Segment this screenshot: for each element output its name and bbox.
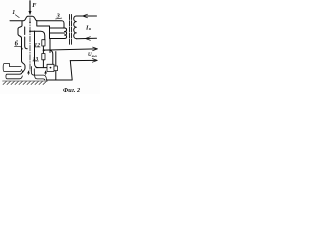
- arrowhead left bottom: [86, 37, 91, 41]
- output loop down: [47, 61, 73, 80]
- svg-text:12: 12: [34, 43, 40, 49]
- wire between windings: [42, 46, 44, 54]
- node dot below hump: [29, 22, 31, 24]
- svg-text:вых: вых: [92, 54, 98, 58]
- bottom load wire: [76, 37, 96, 39]
- wire element edge to box: [36, 67, 47, 69]
- background: [0, 0, 100, 94]
- secondary winding: [74, 16, 77, 39]
- wire from centreline to winding 12: [30, 31, 45, 40]
- arrowhead right 2: [92, 59, 97, 63]
- output wire 1: [44, 49, 96, 50]
- support bracket right: [31, 67, 46, 81]
- wire below winding 13: [42, 60, 44, 68]
- junction node: [43, 49, 45, 51]
- right step of flange: [37, 21, 50, 28]
- leader for label 1: [15, 15, 19, 18]
- elastic element left edge: [18, 21, 25, 72]
- beam top outline with hump: [10, 16, 64, 28]
- inner left slot line: [25, 27, 28, 49]
- node dot on centreline: [29, 30, 31, 32]
- winding 12: [42, 40, 45, 46]
- arrowhead right 1: [93, 47, 98, 51]
- force arrow F: [29, 1, 32, 16]
- reaction arrow left: [27, 70, 30, 75]
- base upper bar: [3, 64, 22, 72]
- connection box: [47, 64, 54, 71]
- ground hatching: [3, 81, 48, 85]
- winding 3 scallops: [65, 28, 67, 39]
- arrowhead left top: [83, 14, 88, 18]
- winding 13: [42, 54, 45, 60]
- element right edge: [35, 31, 39, 68]
- base lower bar: [6, 71, 23, 79]
- svg-text:13: 13: [33, 57, 39, 63]
- top load wire: [76, 15, 96, 17]
- winding 3 lead C to loop: [55, 52, 57, 80]
- reaction arrow right: [44, 70, 47, 75]
- svg-text:1: 1: [12, 10, 15, 16]
- centre dash-dot line: [29, 18, 31, 71]
- output wire 2: [70, 59, 96, 61]
- rod of winding 3: [50, 26, 65, 39]
- transformer core dashed lines: [69, 15, 71, 45]
- svg-text:н: н: [89, 27, 91, 31]
- winding 3 lead B to box: [50, 50, 53, 64]
- svg-text:Фиг. 2: Фиг. 2: [63, 87, 80, 94]
- winding 3 lead A: [49, 39, 51, 53]
